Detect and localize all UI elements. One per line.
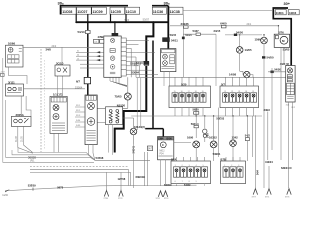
ground arrow right1 [252, 189, 258, 199]
fuse 11D3 [288, 10, 299, 15]
svg-text:24/15: 24/15 [214, 29, 221, 33]
svg-text:31/05: 31/05 [22, 136, 24, 142]
wire bus to ECU [114, 22, 116, 33]
lamp 1342 [230, 116, 238, 161]
wire fuse drop x110 [110, 14, 112, 22]
svg-text:11C05: 11C05 [111, 10, 121, 14]
lamp 16352 [209, 115, 217, 161]
wire heavy drop x88 [87, 22, 89, 95]
wire trunk B down [167, 6, 169, 49]
motor unit 2/76 [274, 26, 289, 48]
svg-text:34E36: 34E36 [181, 22, 190, 26]
wire 2/76 down [283, 47, 285, 63]
svg-text:34/9: 34/9 [206, 133, 209, 138]
fuse 11C38 [169, 7, 183, 14]
junction box 5/7 [220, 77, 259, 116]
unit C1 intermittent relay [161, 49, 176, 72]
svg-text:34/8: 34/8 [46, 48, 52, 52]
svg-text:30a: 30a [58, 1, 64, 6]
wire dashed boundary x44.5 [44, 60, 46, 150]
connector 54/10 [136, 61, 149, 65]
svg-text:16130(2): 16130(2) [134, 125, 145, 129]
svg-text:8: 8 [189, 181, 190, 183]
wire horizontal y169.3 [30, 168, 128, 170]
junction box 5/20 [169, 77, 211, 116]
svg-text:3T/7: 3T/7 [252, 197, 257, 199]
connector left edge 24/2 [1, 72, 6, 77]
ground arrow left2 [118, 172, 123, 200]
wire K2 right y88.8 [24, 88, 86, 90]
wire vertical x252 mid [251, 116, 253, 157]
connector 59014 [194, 118, 198, 138]
unit 16/22 left stubs [75, 107, 85, 127]
ECU bottom pins [110, 77, 127, 86]
enclosure outline 1 [3, 58, 94, 162]
svg-text:P04: P04 [160, 154, 165, 156]
svg-text:11C36: 11C36 [153, 10, 163, 14]
svg-text:11/00: 11/00 [2, 194, 8, 197]
labels 31/1 31/2 [286, 104, 295, 109]
enclosure outline 2 [6, 100, 95, 160]
ground arrow left1 [104, 172, 109, 200]
connector 54/11 [163, 38, 179, 43]
svg-text:6: 6 [175, 181, 176, 183]
svg-text:2/76: 2/76 [278, 30, 284, 34]
wire GM4 right to lamp [174, 142, 191, 144]
enclosure outline 4 [18, 148, 95, 160]
wire heavy stair 1 [115, 22, 154, 152]
motor 34/9 small [203, 116, 210, 142]
ECU left arrowheads [96, 51, 100, 61]
svg-text:5673: 5673 [57, 185, 63, 189]
svg-text:30a: 30a [164, 1, 170, 6]
wire horizontal y172.4 [30, 171, 131, 173]
wire 11C38 drop x183.3 [182, 14, 184, 77]
stub labels [76, 105, 81, 127]
tick 53E09 [32, 188, 34, 191]
wire fuse drop x126 [125, 14, 127, 22]
wire bottom long sloped [5, 185, 196, 191]
svg-text:63E04 N: 63E04 N [281, 166, 292, 170]
svg-text:4/5B: 4/5B [98, 35, 104, 39]
wire GM4 bottom drops [161, 160, 166, 186]
wire bus A top [61, 6, 129, 15]
wire K1 down to K2 [9, 67, 28, 84]
svg-text:41E04: 41E04 [265, 160, 273, 164]
wire bus B top [152, 5, 168, 7]
unit 1/1 [17] [50, 92, 67, 133]
wire drops below arrays [177, 184, 205, 186]
svg-text:53044: 53044 [132, 70, 140, 74]
svg-text:11C07: 11C07 [77, 10, 87, 14]
wire vertical x133.5 low [133, 144, 135, 188]
ground arrow GM4 b [163, 191, 169, 200]
svg-text:(P)1: (P)1 [30, 159, 35, 162]
wire vertical x218 [217, 108, 219, 157]
connector 53044 on stair [134, 62, 149, 66]
svg-text:MG2: MG2 [160, 151, 166, 153]
svg-text:54/15: 54/15 [185, 33, 192, 37]
label 31/05 vertical [22, 136, 24, 142]
wire relay right feeds [123, 107, 134, 118]
switch 10/66 [6, 42, 24, 67]
svg-text:16352: 16352 [209, 136, 217, 140]
lamp 1596 [255, 35, 268, 56]
svg-text:3T/5: 3T/5 [285, 197, 290, 199]
ground arrow right2 [265, 189, 271, 199]
wire relay bottom drops [109, 125, 113, 155]
terminal strip 57R [221, 157, 246, 184]
wire U2 bottom drops to chevron [89, 145, 95, 161]
wire fuse drop x76 [75, 14, 77, 22]
svg-text:11D/1: 11D/1 [276, 11, 284, 15]
connector 6/7D [76, 77, 91, 83]
wire K4 drops merge 50058 [18, 126, 33, 153]
label 31/08 vertical [16, 136, 18, 142]
svg-text:54/15: 54/15 [170, 33, 177, 37]
connector 54/50 a [225, 34, 262, 36]
connector 4/58 top of ECU [112, 33, 119, 36]
unit GM4 B/00 [158, 137, 174, 160]
lamp 75/05 [115, 77, 132, 107]
wire 24/15 drop [215, 34, 217, 86]
fuse 11C36 [152, 7, 166, 14]
svg-text:54/50: 54/50 [274, 67, 281, 71]
svg-text:B/00: B/00 [167, 137, 173, 140]
ground arrow GM4 a [156, 191, 163, 200]
svg-text:2T/3: 2T/3 [118, 198, 123, 199]
connector 54/50 c [268, 67, 286, 73]
connector 54/7 left of GM4 [147, 146, 152, 151]
svg-text:34E3: 34E3 [264, 108, 271, 112]
svg-text:63E01B: 63E01B [136, 175, 146, 179]
svg-text:53E09: 53E09 [28, 184, 36, 188]
svg-text:14/08: 14/08 [229, 73, 236, 77]
wire U1 bottom drops [54, 133, 59, 152]
wire dashed horizontal y166.5 [30, 166, 129, 168]
wire fuse drop x87.5 [87, 14, 89, 22]
chevron merge 54508 [95, 159, 150, 161]
svg-text:1342: 1342 [232, 135, 239, 139]
wire main bus y23 [76, 21, 168, 23]
wire vertical x281 [280, 47, 282, 160]
svg-text:24/2: 24/2 [52, 45, 57, 48]
wire verticals right mid [268, 68, 272, 160]
wire bus C [273, 8, 291, 66]
lamp 16130 [130, 118, 145, 144]
fuse 11C05 [110, 7, 125, 14]
wire C1 to box 5/20 [164, 72, 170, 86]
unit 3/111 [6, 80, 24, 96]
wire heavy stair 2 [145, 41, 163, 137]
wire K1 right y47 [23, 46, 104, 48]
svg-text:7: 7 [182, 181, 183, 183]
wire relay left feeds [95, 108, 106, 122]
connector 54/50 b [262, 56, 265, 188]
wire fuse B2 right y10.5 [183, 10, 273, 12]
lamp 1690 [187, 136, 200, 161]
wire vertical x255 low [254, 115, 256, 188]
connector 5427 [183, 33, 216, 35]
svg-text:11D3: 11D3 [289, 11, 297, 15]
fuse 11D/1 [275, 10, 286, 15]
svg-text:53E03: 53E03 [216, 116, 224, 120]
svg-text:31/08: 31/08 [16, 136, 18, 142]
svg-text:31: 31 [77, 51, 79, 53]
wire horizontal y116 [131, 115, 262, 117]
unit 16/22 tall [85, 95, 97, 145]
connector 34E36 [184, 26, 189, 28]
svg-text:12P08: 12P08 [118, 177, 126, 181]
svg-text:11C09: 11C09 [92, 10, 102, 14]
wire verticals center x137 x141 [137, 78, 141, 130]
wire horizontal y77.3 [136, 76, 293, 78]
svg-text:31/2: 31/2 [291, 107, 295, 109]
svg-text:53/05: 53/05 [283, 48, 290, 52]
fuse 11C09 [92, 7, 107, 14]
relay N0130 [106, 104, 126, 125]
svg-text:11C08: 11C08 [62, 10, 72, 14]
wire U4 drops [288, 102, 292, 188]
wire drops 12P08 [128, 169, 130, 186]
wire vertical x269 low [268, 166, 270, 188]
svg-text:1690: 1690 [187, 136, 194, 140]
unit 4/28 right column [280, 62, 295, 102]
svg-text:15: 15 [77, 58, 79, 60]
connector 6400 [221, 25, 226, 28]
wire dashed boundary x41 [40, 49, 42, 152]
svg-text:5427: 5427 [193, 29, 200, 33]
fuse 11C10 [125, 7, 140, 14]
svg-text:54/50: 54/50 [267, 56, 274, 60]
label 34E41 vertical [132, 145, 136, 153]
svg-text:1596: 1596 [255, 37, 262, 41]
svg-text:54/10: 54/10 [136, 61, 143, 65]
svg-text:6/7: 6/7 [76, 79, 80, 83]
wire K2 bottom drops [21, 96, 31, 116]
lamp 14/08 [229, 71, 253, 78]
wire K3 verticals [58, 47, 63, 96]
svg-text:31/1: 31/1 [286, 104, 290, 106]
fuse small 5620 [194, 108, 199, 118]
svg-text:53/07: 53/07 [143, 17, 150, 21]
fuse 11C08 [62, 7, 77, 14]
wire verticals x144 x147.6 low [144, 152, 147, 186]
arrow tip bottom-left [5, 189, 10, 192]
svg-text:53E01: 53E01 [213, 152, 221, 156]
connector cells left of ECU [94, 39, 104, 43]
terminal strip 57L [171, 157, 211, 184]
lamp 14/05 [236, 36, 252, 71]
svg-text:2T/8: 2T/8 [104, 198, 109, 199]
ECU right wires [126, 40, 158, 77]
svg-text:9: 9 [196, 181, 197, 183]
svg-text:14/05: 14/05 [245, 48, 252, 52]
unit 3C/1D small [55, 61, 70, 76]
wire y25.7 long [170, 25, 278, 27]
enclosure outline 3 [12, 150, 95, 160]
fuse 11C07 [77, 7, 92, 14]
svg-text:54/13: 54/13 [78, 30, 85, 34]
svg-text:C: C [162, 143, 164, 147]
svg-text:54/7: 54/7 [148, 149, 153, 151]
svg-text:54/4: 54/4 [257, 170, 260, 175]
connector 54/13 [78, 30, 91, 34]
svg-text:3T/1: 3T/1 [265, 197, 270, 199]
connector 54/15 [182, 33, 192, 39]
svg-text:3T/3: 3T/3 [164, 198, 169, 199]
connector 54/2 [245, 116, 251, 161]
ECU left pin stubs [76, 41, 104, 68]
switch 3005A [11, 113, 31, 127]
svg-text:54/11: 54/11 [171, 38, 178, 42]
svg-text:54508: 54508 [96, 156, 104, 160]
svg-text:54: 54 [77, 55, 79, 57]
svg-text:24/1: 24/1 [247, 23, 252, 26]
svg-text:1/1 [17]: 1/1 [17] [53, 92, 62, 96]
op unit 4/5B central ECU [98, 35, 127, 77]
wire dashed vertical x176 [176, 160, 178, 186]
svg-text:11C10: 11C10 [126, 10, 136, 14]
svg-text:3T/2: 3T/2 [156, 198, 161, 199]
ground arrow right3 [285, 189, 291, 199]
svg-text:GM4: GM4 [158, 137, 164, 140]
svg-text:75/05: 75/05 [115, 95, 122, 99]
svg-text:30+: 30+ [284, 2, 291, 6]
svg-text:11C38: 11C38 [170, 10, 180, 14]
label 54/4 vertical [257, 170, 260, 175]
